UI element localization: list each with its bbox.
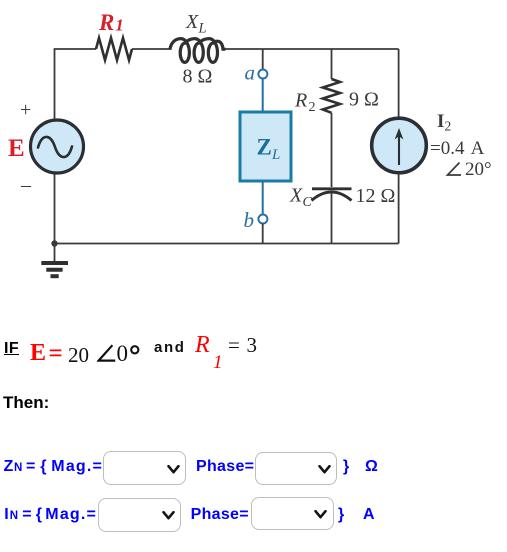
svg-text:=0.4 A: =0.4 A xyxy=(430,138,485,159)
row ZN xyxy=(4,458,14,476)
svg-text:2: 2 xyxy=(445,119,452,134)
resistor R2 xyxy=(323,79,340,113)
impedance ZL xyxy=(240,112,291,181)
svg-text:+: + xyxy=(20,99,31,121)
label XL xyxy=(185,11,207,37)
svg-text:I: I xyxy=(437,111,444,132)
condition line: IF E=20 angle 0 and R1=3 xyxy=(4,340,19,358)
svg-text:X: X xyxy=(289,185,303,207)
label E xyxy=(8,135,25,162)
wire top xyxy=(55,49,399,119)
svg-text:Z: Z xyxy=(257,135,272,160)
wire ZL branch bottom xyxy=(262,224,264,244)
label R2 xyxy=(294,90,316,116)
svg-text:L: L xyxy=(271,147,280,163)
svg-text:12 Ω: 12 Ω xyxy=(356,185,396,207)
label 8 ohm xyxy=(183,65,213,87)
wire right branch top xyxy=(398,49,400,118)
svg-text:–: – xyxy=(20,174,32,196)
svg-text:C: C xyxy=(303,195,313,210)
label angle 20 xyxy=(448,159,492,180)
svg-text:R: R xyxy=(294,90,307,112)
wire left bottom xyxy=(54,174,56,244)
wire ZL branch top xyxy=(262,49,264,69)
label I2 xyxy=(437,111,451,134)
wire XC bottom xyxy=(331,193,333,244)
label XC xyxy=(289,185,313,211)
node a xyxy=(258,70,267,79)
svg-text:a: a xyxy=(245,61,256,85)
wire R2 branch top xyxy=(331,49,333,79)
svg-text:X: X xyxy=(185,11,199,33)
label ZL xyxy=(257,135,281,164)
svg-text:R: R xyxy=(98,10,114,35)
ground xyxy=(41,244,68,277)
node b xyxy=(258,215,267,224)
current source I2 xyxy=(372,118,427,173)
inductor XL xyxy=(170,39,226,63)
svg-text:2: 2 xyxy=(309,100,316,115)
svg-text:9 Ω: 9 Ω xyxy=(349,89,379,111)
label b xyxy=(244,208,255,232)
capacitor XC xyxy=(312,189,352,201)
svg-text:8 Ω: 8 Ω xyxy=(183,65,213,87)
svg-text:E: E xyxy=(8,135,25,162)
label a xyxy=(245,61,256,85)
angle symbol xyxy=(97,344,117,363)
label 0.4 A xyxy=(430,138,485,159)
wire right branch bottom xyxy=(398,173,400,244)
label 9 ohm xyxy=(349,89,379,111)
label 12 ohm xyxy=(356,185,396,207)
circuit schematic xyxy=(0,0,507,330)
voltage source E xyxy=(31,120,84,173)
svg-text:20°: 20° xyxy=(465,159,492,180)
wire R2 to XC xyxy=(331,113,333,187)
Then: xyxy=(3,393,49,413)
svg-text:b: b xyxy=(244,208,255,232)
svg-text:1: 1 xyxy=(115,16,124,35)
wire bottom xyxy=(55,243,399,245)
plus sign xyxy=(20,99,31,121)
junction dot xyxy=(51,240,57,246)
svg-text:L: L xyxy=(198,21,207,37)
wire node a to ZL xyxy=(262,79,264,112)
minus sign xyxy=(20,174,32,196)
row IN xyxy=(4,506,8,524)
label R1 xyxy=(98,10,124,35)
resistor R1 xyxy=(96,38,132,60)
wire ZL to node b xyxy=(262,181,264,214)
